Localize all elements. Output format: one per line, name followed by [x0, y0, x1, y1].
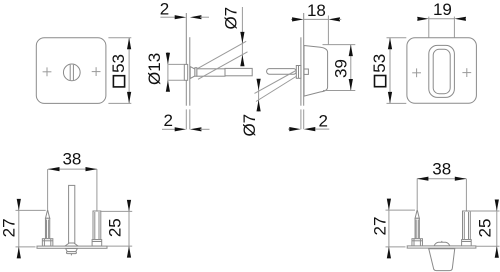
dimension 25 (right assembly) line [496, 203, 498, 254]
spindle stub inside dome [304, 69, 308, 74]
extension lines square 53 (left view) [108, 37, 131, 39]
fixing mark left cross [43, 71, 52, 73]
svg-text:Ø13: Ø13 [145, 53, 164, 85]
dimension arrows 39 [349, 45, 353, 57]
dimension 19 arrows [417, 17, 429, 21]
dimension line dia-7 bottom [258, 79, 260, 112]
spindle half 1 segment b [225, 68, 252, 75]
dimension 18: right extension line [327, 16, 329, 45]
dimension 25 (right assembly) arrows [495, 200, 499, 212]
oblique extension lines dia-7 bottom [255, 71, 297, 94]
dimension arrows 53 (right view) [388, 38, 392, 50]
dimension 25 (right assembly) ext lines [471, 210, 500, 212]
dimension 27 (left assembly) line [18, 203, 20, 255]
oblique extension lines dia-7 top [197, 41, 246, 69]
rose plate profile (thumbturn) back face line [189, 37, 191, 106]
hub below plate (left assembly) [66, 249, 78, 252]
svg-text:2: 2 [160, 0, 169, 19]
spindle (left assembly) [69, 185, 75, 243]
svg-text:27: 27 [371, 217, 390, 236]
svg-text:38: 38 [432, 159, 451, 178]
plate profile lower extension lines [185, 109, 187, 129]
extension lines dia-13 [168, 63, 184, 65]
fixing screw left (right assembly) [416, 179, 418, 210]
dimension 27 (left assembly) arrows [17, 199, 21, 211]
spindle half 1 segment a [197, 69, 225, 76]
dimension 27 (right assembly) ext lines [386, 209, 416, 211]
dimension 2 bottom-right: right arrow+tail [304, 127, 316, 131]
fixing mark left cross (blind rose) [412, 72, 421, 74]
thumbturn knob disc profile [184, 64, 187, 80]
threaded post right (right assembly) [465, 179, 467, 211]
dimension 25 (left assembly) ext lines [101, 210, 132, 212]
emergency release opening outer [429, 45, 455, 97]
svg-text:25: 25 [475, 219, 494, 238]
extension lines square 53 (right view) [387, 37, 407, 39]
dimension line 53 (right view) [389, 38, 391, 104]
dimension line 19 [429, 18, 455, 20]
dimension 25 (left assembly) arrows [127, 200, 131, 212]
dimension arrows dia-7 bottom [257, 79, 261, 91]
svg-text:25: 25 [106, 218, 125, 237]
dimension 38 (left assembly) line+arrows [48, 168, 97, 170]
fixing mark right cross (blind rose) [462, 72, 471, 74]
blind rose plate profile front face line [300, 37, 302, 105]
svg-text:27: 27 [0, 218, 19, 237]
dimension line dia-7 top [241, 7, 243, 66]
svg-text:Ø7: Ø7 [222, 7, 241, 30]
svg-text:38: 38 [62, 149, 81, 168]
thumbturn slot lines [69, 65, 71, 80]
svg-text:18: 18 [307, 1, 326, 20]
emergency release opening inner [433, 49, 450, 93]
thumbturn knob circle [63, 64, 80, 81]
blind rose dome profile [304, 46, 328, 97]
dimension label square-53 (right view) [370, 54, 389, 87]
dimension 2 bottom-left: right arrow+tail [190, 127, 202, 131]
dimension 18: left tail+arrow [291, 18, 293, 20]
dimension 27 (left assembly) ext lines [16, 209, 46, 211]
svg-text:53: 53 [370, 54, 389, 73]
dimension 27 (right assembly) arrows [387, 199, 391, 211]
svg-text:19: 19 [433, 0, 452, 19]
dimension line 39 [350, 45, 352, 91]
dimension 18: dimension line [304, 18, 329, 20]
base plate (right assembly) [407, 246, 476, 248]
spindle bushing at plate [296, 66, 301, 79]
svg-text:53: 53 [109, 54, 128, 73]
dimension 18: right arrow+tail [328, 17, 340, 21]
extension lines 19 [428, 17, 430, 38]
dimension arrows dia-13 [166, 53, 170, 65]
dome boss on plate (right assembly) [434, 242, 450, 246]
spindle hub boss on plate [65, 243, 78, 246]
dimension line dia-13 [167, 52, 169, 92]
svg-text:2: 2 [163, 111, 172, 130]
spindle flare cone [190, 67, 195, 79]
fixing mark right cross [92, 71, 101, 73]
blind rose plate profile back face line [303, 13, 305, 106]
svg-text:2: 2 [318, 111, 327, 130]
blind rose plate lower extension lines [300, 109, 302, 129]
release cup below plate [429, 249, 455, 271]
dimension 38 (right assembly) line+arrows [417, 178, 466, 180]
dimension 2 bottom-right: left tail+arrow [288, 128, 290, 130]
dimension arrows 53 (left view) [127, 38, 131, 50]
dimension 25 (left assembly) line [128, 203, 130, 254]
threaded post right (left assembly) [96, 169, 98, 211]
spindle collar [195, 68, 197, 77]
spindle half 2 (stadium end) [267, 69, 297, 75]
extension lines 39 [323, 44, 356, 46]
fixing screw left (left assembly) [47, 169, 49, 210]
dimension 2 bottom-left: left tail+arrow [162, 128, 176, 130]
svg-text:Ø7: Ø7 [240, 114, 259, 137]
svg-text:39: 39 [332, 59, 351, 78]
base plate (left assembly) [37, 246, 107, 248]
dimension label square-53 (left view) [109, 54, 128, 87]
rose plate profile (thumbturn) front face line [185, 13, 187, 106]
dimension 27 (right assembly) line [388, 202, 390, 255]
front blind rose plate [407, 38, 477, 104]
dimension 2 top: left tail+arrow [160, 16, 176, 18]
dimension line 53 (left view) [128, 38, 130, 104]
dimension 2 top: right arrow+tail [190, 15, 202, 19]
dimension arrows dia-7 top [240, 32, 244, 44]
front rose plate (thumbturn side) [36, 38, 106, 104]
